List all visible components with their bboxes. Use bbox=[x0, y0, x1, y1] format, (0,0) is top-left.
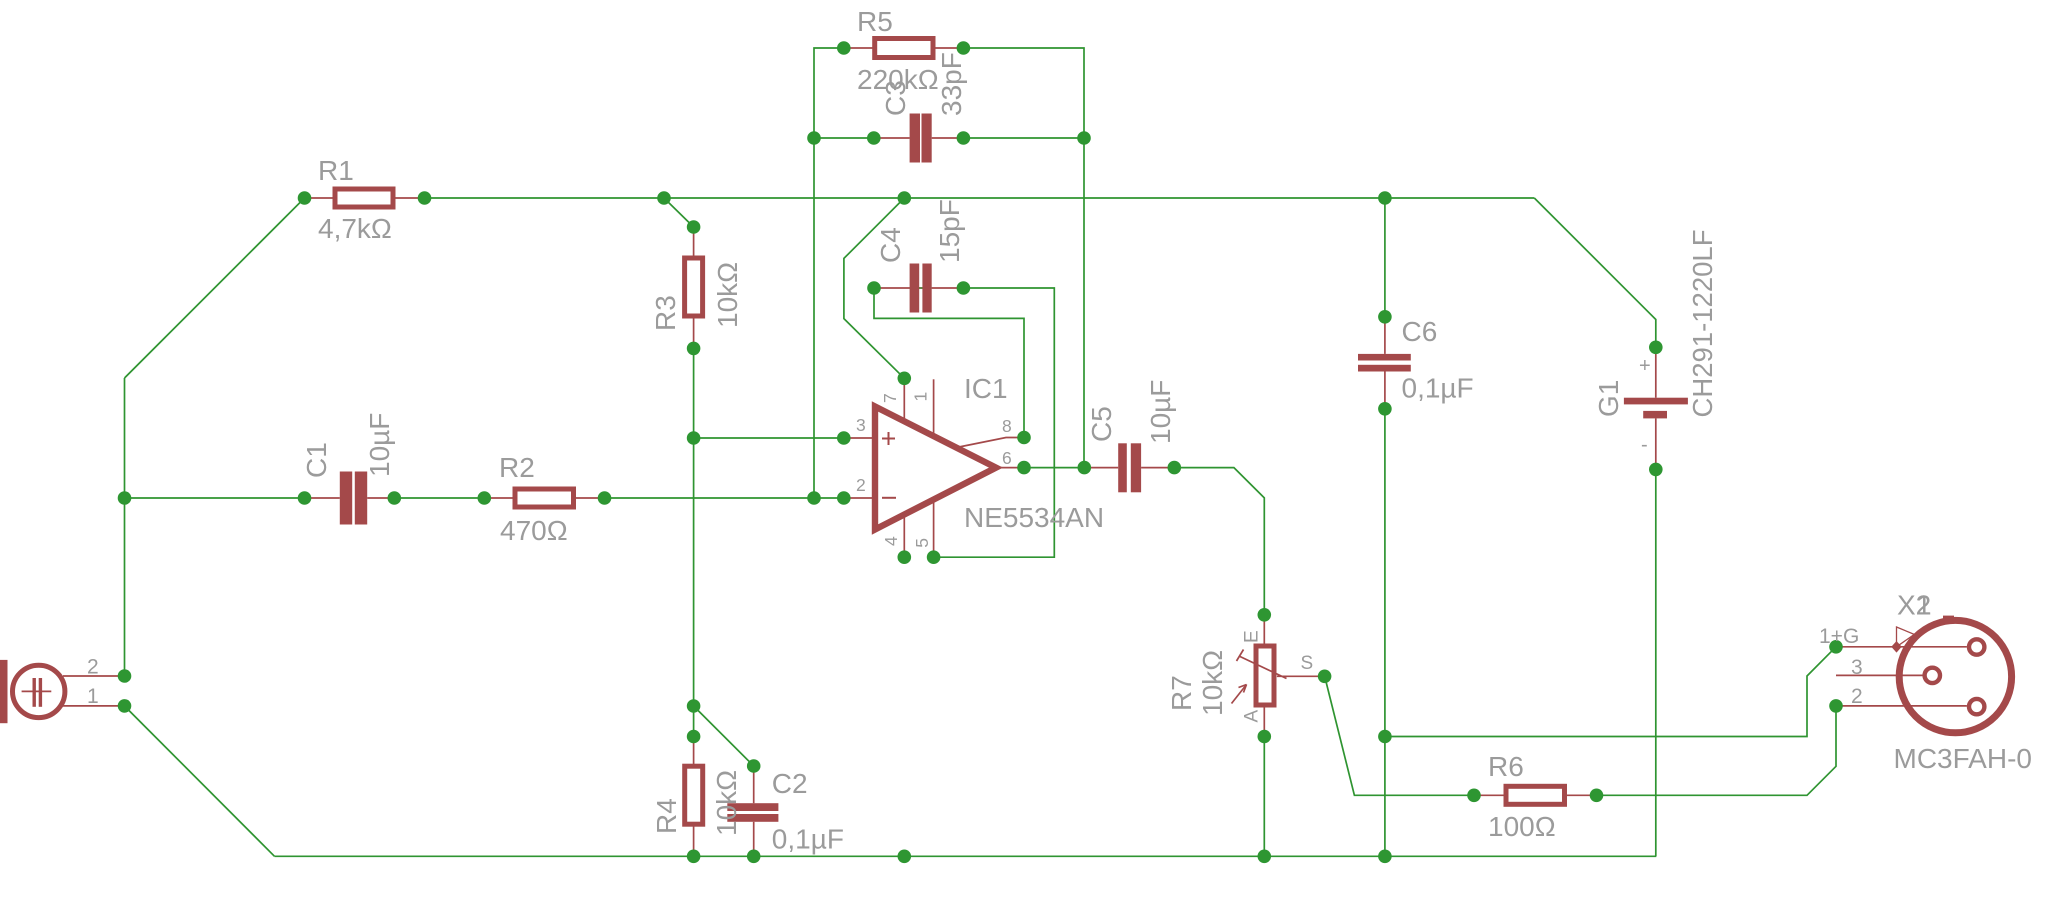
resistor R6 bbox=[1474, 786, 1597, 804]
wire input row to C1 bbox=[125, 497, 305, 499]
svg-text:4,7kΩ: 4,7kΩ bbox=[318, 213, 392, 244]
node C6 pin1 bbox=[1378, 310, 1392, 324]
svg-text:4: 4 bbox=[881, 536, 901, 546]
svg-text:R3: R3 bbox=[650, 295, 681, 331]
wire bottom ground rail bbox=[275, 855, 1657, 857]
node C3 right junction bbox=[1077, 131, 1091, 145]
capacitor C2 bbox=[727, 766, 778, 856]
wire R4 to C2 diagonal bbox=[694, 706, 754, 766]
wire C6 top bbox=[1384, 198, 1386, 317]
svg-text:C5: C5 bbox=[1086, 406, 1117, 442]
node ground R4 bbox=[687, 850, 701, 864]
node pin3 branch bbox=[687, 431, 701, 445]
wire R5 right branch bbox=[963, 48, 1084, 138]
node rail-R3 branch bbox=[657, 191, 671, 205]
svg-text:IC1: IC1 bbox=[964, 373, 1008, 404]
svg-text:C6: C6 bbox=[1402, 316, 1438, 347]
wire battery minus to ground bbox=[1655, 469, 1657, 856]
node pin2 branch bbox=[807, 491, 821, 505]
wire C3 right vertical feedback bbox=[1083, 138, 1085, 468]
wire rail to battery plus bbox=[1534, 198, 1656, 347]
wire C6 bottom vertical bbox=[1384, 409, 1386, 857]
node R3 pin2 bbox=[687, 342, 701, 356]
wire R1 left diagonal bbox=[125, 198, 305, 378]
wire C4 left to pin8 bbox=[874, 288, 1024, 438]
svg-text:1: 1 bbox=[910, 392, 930, 402]
svg-text:C1: C1 bbox=[301, 442, 332, 478]
node pin6 bbox=[1017, 461, 1031, 475]
potentiometer R7 bbox=[1232, 615, 1325, 737]
svg-text:6: 6 bbox=[1002, 448, 1012, 468]
svg-text:15pF: 15pF bbox=[934, 199, 965, 263]
svg-text:10kΩ: 10kΩ bbox=[711, 770, 742, 836]
node C3 left junction bbox=[807, 131, 821, 145]
wire pin6 output row bbox=[1024, 467, 1084, 469]
battery G1 bbox=[1624, 347, 1688, 469]
svg-text:S: S bbox=[1301, 653, 1314, 674]
svg-text:R7: R7 bbox=[1166, 675, 1197, 711]
svg-text:3: 3 bbox=[856, 415, 866, 435]
resistor R2 bbox=[484, 489, 604, 507]
wire rail to R3 diagonal bbox=[664, 198, 694, 227]
capacitor C5 bbox=[1084, 443, 1174, 492]
node pin4 bbox=[898, 550, 912, 564]
node rail-R1 right bbox=[418, 191, 432, 205]
svg-text:R5: R5 bbox=[857, 6, 893, 37]
svg-text:R2: R2 bbox=[499, 452, 535, 483]
wire rail to pin7 zigzag bbox=[844, 198, 904, 378]
svg-text:A: A bbox=[1242, 710, 1263, 723]
svg-text:E: E bbox=[1242, 630, 1263, 643]
svg-text:R1: R1 bbox=[318, 155, 354, 186]
node R7 pinE bbox=[1258, 608, 1272, 622]
node ground C2 bbox=[747, 850, 761, 864]
node ground pin4 bbox=[898, 850, 912, 864]
node mic pin1 bbox=[118, 699, 132, 713]
svg-text:CH291-1220LF: CH291-1220LF bbox=[1687, 229, 1718, 417]
XLR connector X2 bbox=[1836, 616, 2012, 733]
node battery plus bbox=[1649, 341, 1663, 355]
node R7 pinA bbox=[1258, 730, 1272, 744]
svg-text:10µF: 10µF bbox=[1145, 380, 1176, 444]
node XLR pin2 bbox=[1829, 699, 1843, 713]
node ground R7 bbox=[1258, 850, 1272, 864]
svg-text:3: 3 bbox=[1851, 656, 1863, 679]
node R4 pin1 bbox=[687, 730, 701, 744]
svg-text:MC3FAH-0: MC3FAH-0 bbox=[1894, 743, 2032, 774]
svg-text:7: 7 bbox=[880, 393, 900, 403]
svg-text:G1: G1 bbox=[1593, 380, 1624, 417]
wire C3 right stub bbox=[963, 137, 1084, 139]
capacitor C6 bbox=[1358, 317, 1411, 409]
wire C4 right to pin5 bbox=[934, 288, 1055, 557]
resistor R3 bbox=[685, 227, 703, 348]
resistor R1 bbox=[305, 189, 425, 207]
node C5 pin1 bbox=[1078, 461, 1092, 475]
wire left vertical bbox=[124, 378, 126, 676]
wire R6 to XLR pin2 bbox=[1597, 706, 1837, 795]
node R7 pinS bbox=[1318, 670, 1332, 684]
node C6 output branch bbox=[1378, 730, 1392, 744]
svg-text:100Ω: 100Ω bbox=[1488, 811, 1556, 842]
svg-text:470Ω: 470Ω bbox=[500, 515, 568, 546]
svg-text:NE5534AN: NE5534AN bbox=[964, 502, 1104, 533]
svg-text:0,1µF: 0,1µF bbox=[1402, 373, 1474, 404]
svg-text:1+G: 1+G bbox=[1819, 625, 1859, 648]
node R2 pin2 bbox=[598, 491, 612, 505]
svg-text:0,1µF: 0,1µF bbox=[772, 824, 844, 855]
svg-text:R4: R4 bbox=[651, 798, 682, 834]
svg-text:C3: C3 bbox=[880, 80, 911, 116]
node pin2 bbox=[837, 491, 851, 505]
svg-text:1: 1 bbox=[87, 685, 99, 708]
node R3 pin1 bbox=[687, 220, 701, 234]
node C4 pin1 bbox=[867, 281, 881, 295]
resistor R5 bbox=[844, 39, 964, 58]
svg-text:10kΩ: 10kΩ bbox=[1197, 650, 1228, 716]
node mic pin2 bbox=[118, 669, 132, 683]
node rail-C6 branch bbox=[1378, 191, 1392, 205]
node pin8 bbox=[1017, 431, 1031, 445]
node R5 pin1 bbox=[837, 41, 851, 55]
wire R7 wiper to R6 bbox=[1325, 676, 1474, 795]
svg-text:-: - bbox=[1641, 434, 1648, 456]
node C3 pin1 bbox=[867, 131, 881, 145]
wire mid right to XLR pin1 bbox=[1385, 647, 1836, 737]
wire R7 bottom to ground bbox=[1263, 737, 1265, 857]
svg-text:+: + bbox=[1639, 355, 1651, 377]
node R4-C2 branch bbox=[687, 699, 701, 713]
svg-text:2: 2 bbox=[856, 475, 866, 495]
node C5 pin2 bbox=[1168, 461, 1182, 475]
wire top supply rail bbox=[425, 197, 1535, 199]
node C4 pin2 bbox=[957, 281, 971, 295]
svg-text:C2: C2 bbox=[772, 768, 808, 799]
wire R2 to pin2 junction bbox=[605, 497, 815, 499]
node ground C6 bbox=[1378, 850, 1392, 864]
node rail-R1 bbox=[298, 191, 312, 205]
svg-text:C4: C4 bbox=[875, 227, 906, 263]
wire C3 left vertical bbox=[813, 138, 815, 498]
node C2 pin1 bbox=[747, 759, 761, 773]
svg-text:10kΩ: 10kΩ bbox=[712, 262, 743, 328]
capacitor C1 bbox=[305, 472, 395, 525]
wire C5 out to R7 bbox=[1174, 468, 1264, 615]
node rail-pin7 branch bbox=[898, 191, 912, 205]
svg-text:8: 8 bbox=[1002, 416, 1012, 436]
node R2 pin1 bbox=[478, 491, 492, 505]
microphone M1 bbox=[0, 660, 125, 723]
wire pin3 row bbox=[694, 437, 844, 439]
resistor R4 bbox=[685, 737, 703, 857]
svg-text:33pF: 33pF bbox=[936, 52, 967, 116]
wire pin2 stub bbox=[814, 497, 844, 499]
node R5 pin2 bbox=[957, 41, 971, 55]
node battery minus bbox=[1649, 463, 1663, 477]
svg-text:10µF: 10µF bbox=[364, 413, 395, 477]
svg-text:1: 1 bbox=[1916, 590, 1932, 621]
node pin5 bbox=[927, 550, 941, 564]
node R6 pin2 bbox=[1590, 789, 1604, 803]
wire mic pin1 diagonal bbox=[125, 706, 275, 856]
node pin3 bbox=[837, 431, 851, 445]
capacitor C4 bbox=[874, 264, 963, 313]
wire R3 bottom vertical bbox=[693, 348, 695, 736]
svg-text:R6: R6 bbox=[1488, 751, 1524, 782]
svg-text:2: 2 bbox=[1851, 685, 1863, 708]
wire C3 left stub bbox=[814, 137, 874, 139]
node C6 pin2 bbox=[1378, 402, 1392, 416]
svg-text:2: 2 bbox=[87, 656, 99, 679]
op-amp IC1 bbox=[844, 378, 1024, 557]
wire R5 left branch bbox=[814, 48, 844, 138]
node C3 pin2 bbox=[957, 131, 971, 145]
node R6 pin1 bbox=[1467, 789, 1481, 803]
wire C1 to R2 bbox=[394, 497, 484, 499]
node C1 pin1 bbox=[298, 491, 312, 505]
node pin7 bbox=[898, 372, 912, 386]
node XLR pin1 bbox=[1829, 640, 1843, 654]
svg-text:5: 5 bbox=[912, 538, 932, 548]
capacitor C3 bbox=[874, 114, 964, 163]
node input left bbox=[118, 491, 132, 505]
node C1 pin2 bbox=[388, 491, 402, 505]
